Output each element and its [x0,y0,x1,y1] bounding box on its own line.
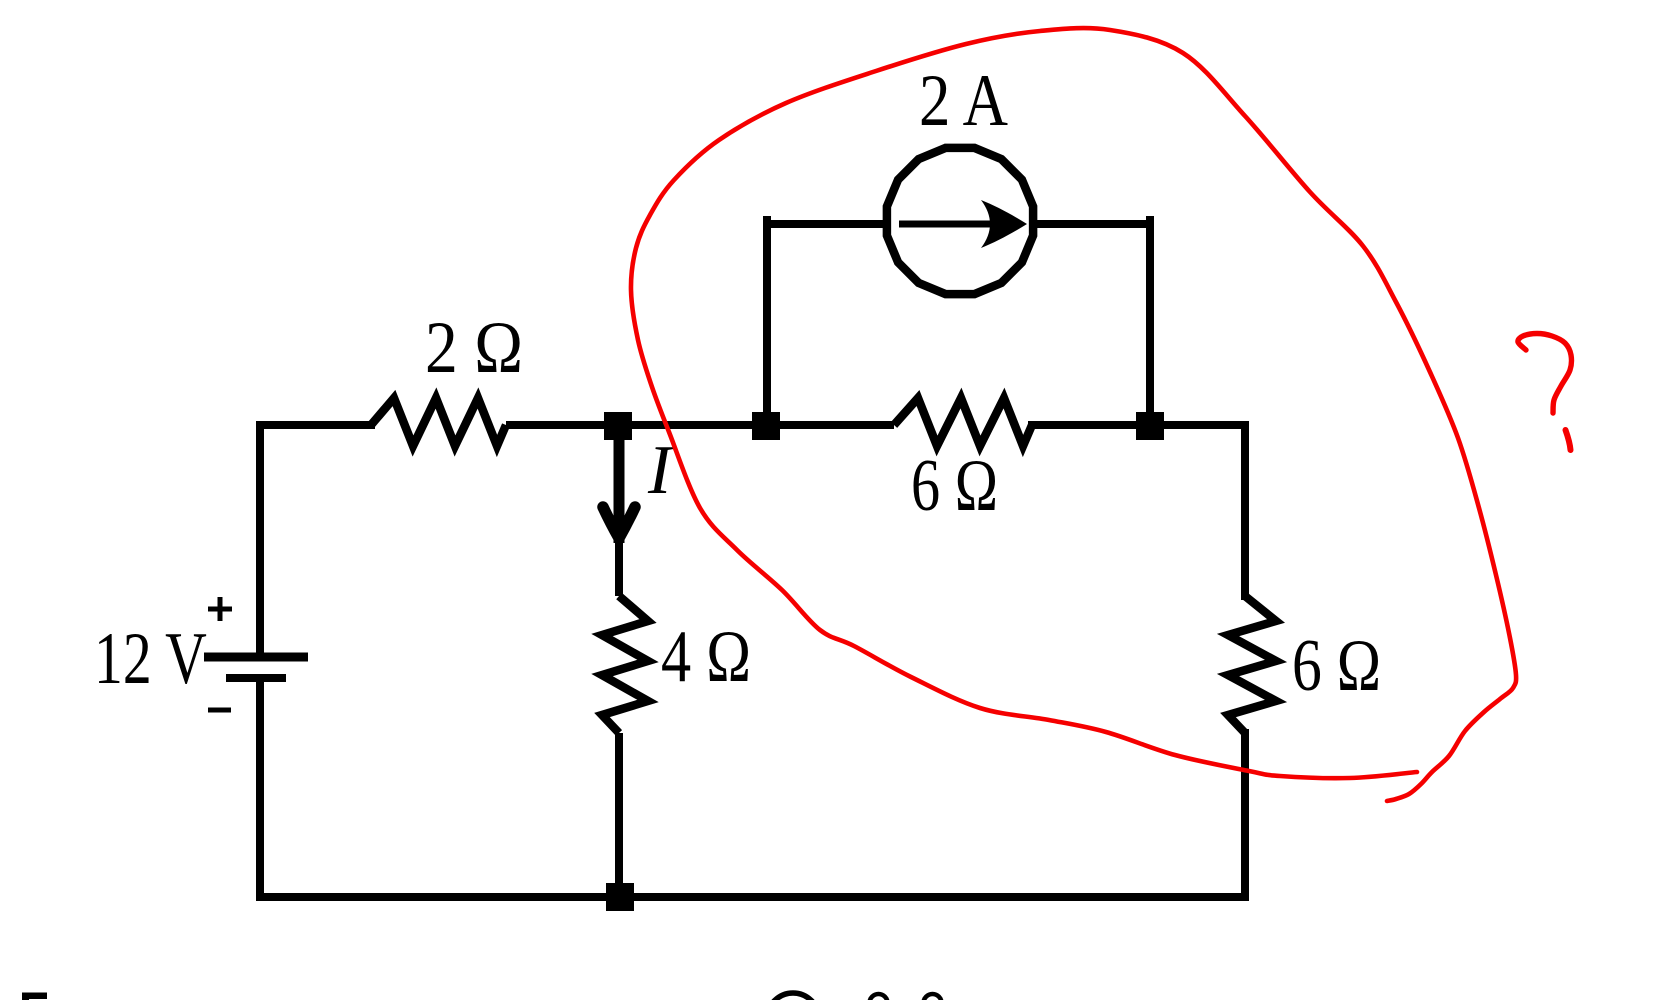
svg-text:6 Ω: 6 Ω [911,445,998,527]
wire: bottom horizontal rail [260,893,1245,901]
wire: 2A loop right vertical down to node C [1146,220,1154,425]
svg-text:4 Ω: 4 Ω [661,616,751,698]
battery V1 12V: top long plate [204,653,308,662]
cut-off glyph: small arc 2 at bottom-center [924,994,942,1000]
wire: vertical from 4-ohm resistor down to bottom node D [615,733,623,897]
node A junction dot (top of 4-ohm branch) [604,412,632,440]
current source arrow (pointing right) [899,221,1000,228]
resistor R1 2ohm (horizontal zigzag) [371,398,506,446]
wire: top middle horizontal from 2-ohm resistor through node A to node B [506,421,894,429]
resistor R3 6ohm (horizontal zigzag) [894,398,1032,446]
svg-text:12 V: 12 V [94,618,207,699]
cut-off glyph: small arc 1 at bottom-center [870,994,888,1000]
svg-text:2 Ω: 2 Ω [425,307,523,389]
node B junction dot (left of current source loop) [752,412,780,440]
wire: left vertical from battery - plate down to bottom-left corner [256,682,264,897]
node D junction dot (bottom wire) [606,883,634,911]
wire: top-left horizontal segment from battery corner to 2-ohm resistor [260,421,371,429]
red annotation loop (hand-drawn enclosure) [631,28,1516,801]
cut-off text fragment: letter F at bottom-left [22,993,47,1000]
red question mark [1518,334,1572,414]
wire: 2A loop top-right horizontal from current source [1034,220,1150,228]
wire: horizontal from node B to 6-ohm resistor [766,421,894,429]
node C junction dot (right of current source loop) [1136,412,1164,440]
wire: right vertical from top-right corner down to 6-ohm resistor [1241,425,1249,596]
wire: 2A loop top-left horizontal to current source [767,220,886,228]
wire: right vertical from 6-ohm resistor down to bottom-right corner [1241,733,1249,897]
current source U1 2A (16-gon circle) [887,148,1033,294]
battery V1 12V: bottom short plate [226,674,286,682]
svg-text:2 A: 2 A [919,60,1008,142]
wire: top-right horizontal from 6-ohm resistor to top-right corner [1032,421,1245,429]
svg-text:6 Ω: 6 Ω [1292,625,1381,707]
battery minus sign [208,708,231,713]
red question mark dot-dash [1566,430,1571,450]
svg-text:I: I [647,432,675,509]
wire: vertical from node A down to 4-ohm resistor [615,429,623,596]
wire: left vertical from top corner down to battery + plate [256,425,264,653]
resistor R4 6ohm (vertical zigzag) [1228,596,1276,733]
wire: 2A loop left vertical riser from node B [763,220,771,425]
battery plus sign [208,607,232,612]
cut-off glyph: large circle arc at bottom-center [767,993,819,1000]
current arrow I on node A branch [614,432,625,543]
resistor R2 4ohm (vertical zigzag) [602,596,648,733]
